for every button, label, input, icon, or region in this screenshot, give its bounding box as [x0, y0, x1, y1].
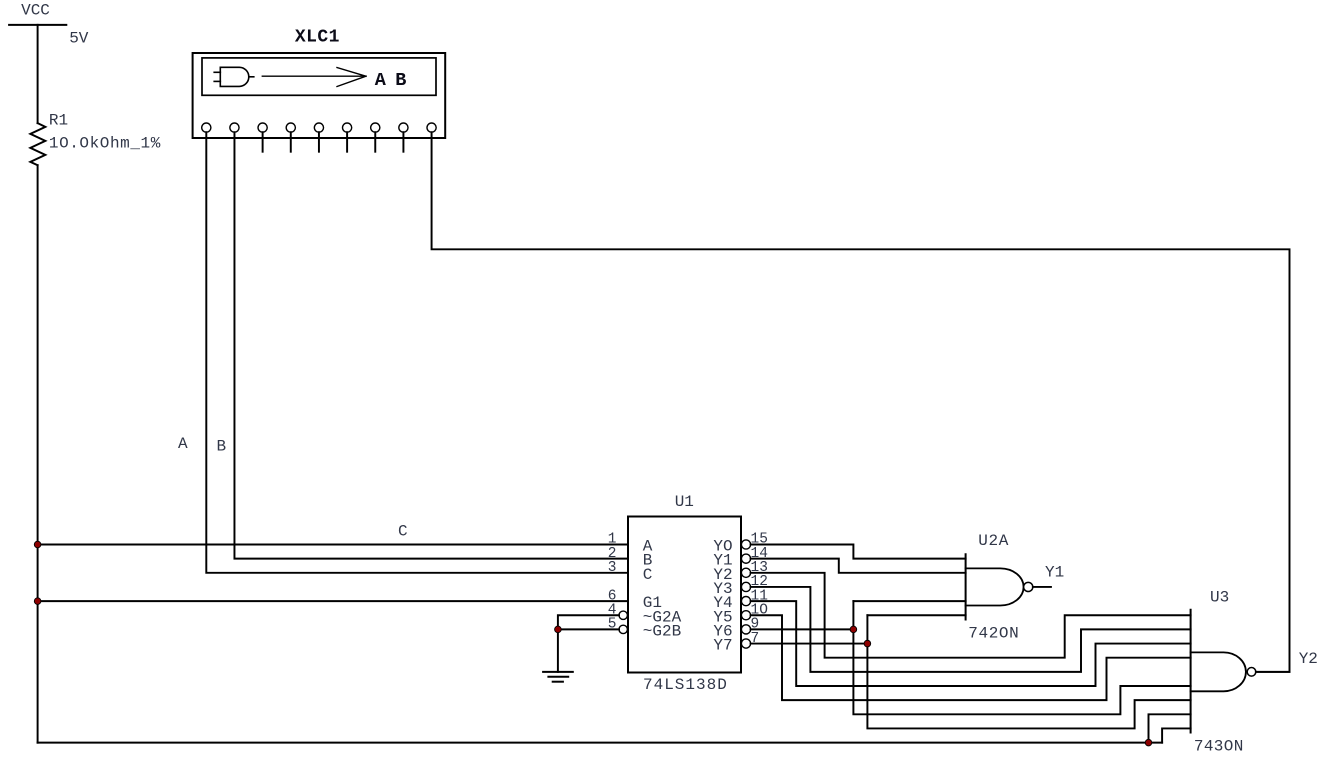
nand gate U3 7430N: [1191, 610, 1290, 733]
IC U1 74LS138D body: [628, 517, 741, 673]
svg-text:742ON: 742ON: [968, 624, 1018, 642]
wire net A from XLC terminal 1 to U1 pin 3: [206, 132, 628, 573]
svg-text:U1: U1: [675, 493, 694, 511]
node G1 junction: [34, 598, 41, 605]
nand gate U2A 7420N: [966, 554, 1051, 619]
terminals of XLC1: [202, 123, 436, 132]
wire Y6 horizontal: [751, 628, 854, 630]
wire Y7 vertical to U2A input 4 and U3 input 6: [867, 615, 1190, 728]
wire to U1 pin6 G1: [38, 600, 628, 602]
logic converter XLC1 outer box: [193, 53, 446, 138]
wire Y0 to U2A input 1: [751, 545, 966, 559]
node ground junction: [555, 626, 562, 633]
svg-text:XLC1: XLC1: [295, 28, 340, 48]
output bubbles Y0-Y7: [741, 540, 750, 648]
svg-text:1O.OkOhm_1%: 1O.OkOhm_1%: [49, 134, 161, 152]
svg-text:U3: U3: [1210, 588, 1229, 606]
terminal stubs: [263, 132, 404, 152]
pin 4 bubble ~G2A: [619, 611, 627, 619]
svg-text:B: B: [217, 438, 227, 456]
wire Y2 to U3 input 1: [751, 573, 1191, 658]
svg-text:Y1: Y1: [1045, 564, 1064, 582]
svg-text:A B: A B: [375, 70, 407, 91]
svg-text:C: C: [398, 523, 408, 541]
wire net B from XLC terminal 2 to U1 pin 2: [234, 132, 628, 558]
svg-text:~G2B: ~G2B: [643, 622, 681, 640]
node bottom junction: [1145, 739, 1152, 746]
wire net C to U1 pin1: [38, 544, 628, 546]
wire Y4 to U3 input 3: [751, 601, 1191, 686]
wire bottom net to U3 input 7: [1149, 714, 1191, 742]
wire ~G2A ~G2B to ground: [558, 615, 619, 672]
svg-text:C: C: [643, 566, 653, 584]
wire Y3 to U3 input 2: [751, 587, 1191, 672]
svg-text:VCC: VCC: [21, 2, 50, 20]
wire bottom net: [38, 742, 1163, 744]
node C junction: [34, 541, 41, 548]
wire Y1 to U2A input 2: [751, 559, 966, 573]
power VCC: [9, 25, 66, 123]
wire U2A input 3 horizontal: [853, 600, 965, 602]
node Y6 junction: [850, 626, 857, 633]
svg-text:Y2: Y2: [1299, 650, 1318, 668]
svg-text:3: 3: [608, 560, 617, 576]
ground: [543, 672, 573, 682]
svg-text:A: A: [178, 435, 188, 453]
wire bottom net to U3 input 8: [1162, 728, 1191, 742]
node Y7 junction: [864, 640, 871, 647]
resistor R1: [30, 123, 45, 165]
svg-text:74LS138D: 74LS138D: [643, 676, 727, 694]
wire Y5 to U3 input 4: [751, 615, 1191, 700]
wire U2A input 4 horizontal: [867, 614, 965, 616]
svg-text:7: 7: [751, 631, 760, 647]
svg-text:743ON: 743ON: [1194, 737, 1243, 755]
pin 5 bubble ~G2B: [619, 625, 627, 633]
wire net Y2 from XLC terminal 9 around right side to U3 output: [432, 132, 1290, 672]
arrow: [262, 68, 366, 87]
svg-text:R1: R1: [49, 111, 68, 129]
wire VCC rail: [37, 165, 39, 742]
svg-text:Y7: Y7: [713, 637, 732, 655]
svg-text:5: 5: [608, 617, 617, 633]
wire Y6 vertical to U2A input 3 and U3 input 5: [853, 601, 1190, 714]
logic converter inner display box: [202, 58, 436, 95]
svg-text:U2A: U2A: [978, 532, 1009, 550]
wire Y7 horizontal: [751, 643, 868, 645]
svg-text:5V: 5V: [69, 29, 89, 47]
AND gate icon: [214, 67, 254, 86]
